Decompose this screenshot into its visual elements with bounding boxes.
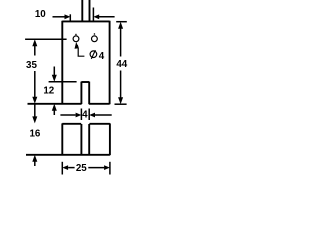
centerline dot left	[75, 34, 76, 35]
svg-text:4: 4	[82, 110, 88, 121]
svg-text:4: 4	[99, 51, 105, 62]
svg-text:10: 10	[35, 9, 46, 20]
dimension 16 (left)	[29, 105, 40, 167]
body outline	[28, 21, 110, 105]
svg-text:12: 12	[43, 86, 54, 97]
svg-text:16: 16	[29, 128, 40, 139]
dimension 10 (top)	[35, 8, 115, 22]
svg-text:25: 25	[76, 163, 87, 174]
svg-text:35: 35	[26, 60, 37, 71]
dimension 4 (slot width)	[60, 109, 111, 121]
hole right	[92, 36, 98, 42]
dimension 44 (right)	[115, 22, 128, 105]
tab lines	[82, 0, 89, 21]
hole left	[73, 36, 79, 42]
slot top extension line (left)	[49, 81, 77, 83]
block outline	[26, 123, 110, 155]
slot in block	[81, 124, 89, 155]
dimension 35 (left)	[26, 39, 37, 104]
hole centre extension line (left)	[25, 38, 67, 40]
dimension 25 (bottom)	[62, 162, 110, 175]
dimension 12 (left)	[43, 67, 56, 116]
diameter 4 label with leader	[75, 42, 105, 62]
centerline dot right	[94, 33, 95, 34]
slot in body	[81, 82, 89, 104]
svg-text:44: 44	[116, 59, 127, 70]
